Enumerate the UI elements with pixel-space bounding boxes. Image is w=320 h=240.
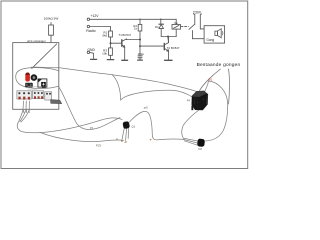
svg-text:P23: P23 [96,143,101,147]
svg-text:GND: GND [87,48,95,52]
svg-text:pt5: pt5 [144,105,148,109]
svg-text:T2 BC547: T2 BC547 [167,46,180,50]
svg-text:10k: 10k [102,51,107,55]
svg-text:T1 BC547: T1 BC547 [119,33,132,37]
svg-text:print ontvanger: print ontvanger [27,39,46,43]
svg-text:230V: 230V [193,10,202,14]
svg-text:Bestaande gongen: Bestaande gongen [197,62,241,68]
svg-text:B1: B1 [209,77,213,81]
svg-text:Re: Re [175,21,179,25]
svg-text:Radio: Radio [86,29,95,33]
svg-text:P4: P4 [187,99,191,103]
svg-text:100kΩ 5W: 100kΩ 5W [44,16,59,20]
svg-text:5k6: 5k6 [102,33,107,37]
svg-text:100µ: 100µ [138,52,145,56]
svg-text:+12V: +12V [91,14,100,18]
svg-text:D1: D1 [155,25,159,29]
svg-text:D2: D2 [198,147,202,151]
svg-text:Q1: Q1 [131,124,135,128]
svg-text:G: G [116,138,118,141]
svg-text:Gong: Gong [206,38,214,42]
svg-text:P1: P1 [90,126,94,130]
